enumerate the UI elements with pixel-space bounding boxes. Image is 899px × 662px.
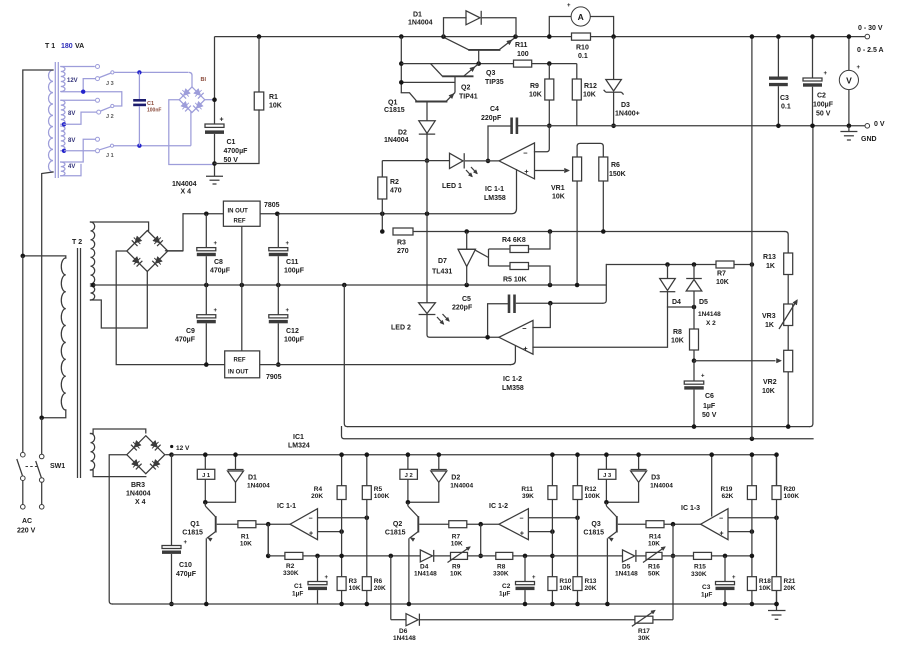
wire C4 left to output node bbox=[488, 126, 510, 161]
wire R17 up to cell3 output bbox=[653, 619, 673, 621]
wire output down to bus bbox=[672, 524, 674, 556]
svg-text:R11: R11 bbox=[515, 42, 528, 49]
wire bottom mid rail bbox=[347, 426, 810, 428]
wire C5 right line bbox=[516, 302, 604, 304]
svg-text:1µF: 1µF bbox=[292, 591, 303, 598]
transformer T1 secondary winding 8V section bbox=[61, 100, 65, 124]
wire +12V rail bbox=[172, 454, 774, 456]
terminal 0V bbox=[865, 124, 870, 129]
svg-text:J 3: J 3 bbox=[603, 473, 612, 479]
svg-text:IC 1-2: IC 1-2 bbox=[503, 376, 522, 383]
svg-text:100: 100 bbox=[517, 51, 529, 58]
diode D5 1N4148 bottom bbox=[623, 550, 635, 562]
resistor R13 20K bbox=[573, 577, 582, 591]
trimmer R9 10K bbox=[451, 552, 468, 559]
svg-text:1N4004: 1N4004 bbox=[247, 483, 270, 490]
resistor R1 10K bbox=[238, 521, 256, 528]
svg-text:C6: C6 bbox=[705, 393, 714, 400]
transformer T1 primary winding bbox=[49, 70, 54, 172]
svg-text:50 V: 50 V bbox=[816, 111, 831, 118]
svg-text:D3: D3 bbox=[651, 475, 660, 482]
svg-text:A: A bbox=[578, 12, 584, 22]
resistor R21 20K bbox=[772, 577, 781, 591]
diode D4 1N4148 bottom bbox=[420, 550, 432, 562]
svg-text:+: + bbox=[286, 308, 290, 314]
svg-text:R10: R10 bbox=[576, 45, 589, 52]
wire R7 to output node bbox=[467, 523, 499, 525]
node mid rail right column bbox=[342, 283, 347, 288]
node VR2 bottom rail bbox=[786, 424, 791, 429]
diode D2 1N4004 bbox=[438, 455, 440, 470]
wire T1 primary top to left bus bbox=[23, 70, 53, 256]
switch J2 lower contact bbox=[97, 110, 101, 114]
svg-text:LED 2: LED 2 bbox=[391, 325, 411, 332]
svg-text:R16: R16 bbox=[648, 564, 660, 571]
resistor R8 330K bottom bbox=[496, 552, 513, 559]
wire IC1-2 inverting input bbox=[533, 303, 550, 327]
svg-text:R2: R2 bbox=[390, 179, 399, 186]
node bus C1 bbox=[315, 554, 320, 559]
svg-text:0 V: 0 V bbox=[874, 121, 885, 128]
node rail ammeter left bbox=[547, 34, 552, 39]
svg-text:R20: R20 bbox=[784, 486, 796, 493]
svg-text:−: − bbox=[308, 516, 312, 523]
node C10 bottom bbox=[169, 602, 174, 607]
diode D6 1N4148 bbox=[391, 619, 406, 621]
wire column B bbox=[776, 500, 778, 577]
svg-text:270: 270 bbox=[397, 248, 409, 255]
svg-text:4V: 4V bbox=[68, 164, 75, 170]
switch J3 common joint bbox=[111, 71, 114, 74]
wire column A bottom bbox=[751, 591, 753, 605]
svg-text:R1: R1 bbox=[269, 94, 278, 101]
node bus colA1 bbox=[339, 554, 344, 559]
node bus C2 bbox=[523, 554, 528, 559]
wire winding top to BR3 bbox=[91, 429, 146, 434]
capacitor C3 0.1 bbox=[777, 37, 779, 77]
diode D1 1N4004 bbox=[235, 455, 237, 470]
wire VR2 bottom bbox=[787, 372, 789, 427]
wire mains left bus 2 bbox=[41, 418, 43, 454]
connector J2 bbox=[407, 455, 409, 470]
svg-text:D7: D7 bbox=[438, 258, 447, 265]
wire 7905 out rail bbox=[260, 364, 511, 366]
node X top blue bus bbox=[137, 70, 141, 74]
wire R9 column upper bbox=[548, 64, 550, 79]
svg-text:−: − bbox=[522, 324, 527, 333]
svg-text:R19: R19 bbox=[720, 486, 732, 493]
wire column B bottom bbox=[776, 591, 778, 605]
diode D2 1N4004 bbox=[419, 121, 435, 134]
node mid rail REF bbox=[240, 283, 245, 288]
svg-text:C1815: C1815 bbox=[182, 530, 203, 537]
ground symbol main bbox=[206, 175, 223, 177]
wire 0V to bottom mid rail right side bbox=[810, 126, 813, 427]
node Q1 base line bbox=[399, 61, 404, 66]
resistor R6 20K bbox=[362, 577, 371, 591]
svg-text:1N4004: 1N4004 bbox=[450, 483, 473, 490]
svg-text:+: + bbox=[214, 241, 218, 247]
wire diode clamp line bbox=[606, 264, 716, 266]
svg-text:+: + bbox=[567, 3, 571, 9]
resistor R15 330K bbox=[694, 552, 712, 559]
svg-text:1N4004: 1N4004 bbox=[408, 20, 433, 27]
svg-text:62K: 62K bbox=[721, 493, 733, 500]
wire winding bottom to BR3 bbox=[91, 470, 146, 477]
node C1 negative ground bbox=[212, 161, 217, 166]
svg-text:470: 470 bbox=[390, 188, 402, 195]
svg-text:+: + bbox=[701, 374, 705, 380]
svg-text:X 4: X 4 bbox=[135, 499, 146, 506]
node D2 LED1 bbox=[425, 158, 430, 163]
svg-text:+: + bbox=[824, 71, 828, 77]
wire bottom ground rail bbox=[112, 603, 776, 605]
wire Q2 base bbox=[419, 523, 449, 525]
svg-text:10K: 10K bbox=[451, 541, 463, 548]
resistor R12 100K bbox=[577, 455, 579, 486]
svg-text:220pF: 220pF bbox=[481, 115, 502, 122]
wire R2 top bbox=[381, 161, 383, 177]
svg-text:10K: 10K bbox=[762, 388, 775, 395]
wire 7805 REF down bbox=[241, 226, 243, 285]
transistor Q2 C1815 bottom bbox=[417, 516, 419, 532]
svg-text:10K: 10K bbox=[559, 585, 571, 592]
svg-text:Q2: Q2 bbox=[461, 85, 470, 92]
svg-text:1N4148: 1N4148 bbox=[414, 571, 437, 578]
svg-text:D6: D6 bbox=[399, 628, 408, 635]
resistor R4 6K8 bbox=[510, 246, 529, 253]
wire rail end corner to R20 bbox=[774, 455, 777, 486]
wire column B bottom bbox=[366, 591, 368, 605]
wire J1 top contact to 4V section top bbox=[61, 139, 95, 162]
node bridge output bbox=[212, 97, 217, 102]
wire Q1 collector vertical bbox=[400, 37, 402, 93]
wire BR2 left vertex to 7905 line bbox=[116, 251, 225, 365]
wire BR3 left vertex to ground rail bbox=[109, 455, 126, 604]
svg-text:100K: 100K bbox=[784, 493, 800, 500]
capacitor C5 220pF bbox=[508, 295, 511, 314]
node tap D on winding bbox=[62, 122, 66, 126]
capacitor C3 1uF bottom bbox=[724, 556, 726, 582]
wire J3 lower contact to tap B bbox=[83, 79, 95, 90]
node rail Q3 left bbox=[441, 34, 446, 39]
svg-text:10K: 10K bbox=[450, 571, 462, 578]
wire reference rail bbox=[413, 231, 785, 233]
wire bridge BR2 plus to 7805 bbox=[166, 214, 184, 251]
resistor R9 bbox=[545, 79, 554, 100]
svg-text:IC 1-2: IC 1-2 bbox=[489, 503, 508, 510]
connector J1 bbox=[204, 455, 206, 470]
wire R1 top bbox=[258, 37, 260, 92]
svg-text:+: + bbox=[732, 575, 736, 581]
svg-text:470µF: 470µF bbox=[175, 337, 196, 344]
svg-text:R2: R2 bbox=[286, 563, 295, 570]
wire Q1 base bbox=[217, 523, 238, 525]
svg-text:R1: R1 bbox=[241, 534, 250, 541]
terminal AC 1 bbox=[21, 505, 26, 510]
wire bus colA2 to D5 bbox=[552, 555, 622, 557]
wire R1 to output node bbox=[256, 523, 290, 525]
svg-text:+: + bbox=[220, 117, 224, 124]
wire D5 to R8 bbox=[693, 307, 695, 329]
wire IC1-1 noninverting input bbox=[318, 531, 342, 533]
svg-text:R21: R21 bbox=[784, 578, 796, 585]
svg-text:REF: REF bbox=[234, 219, 246, 225]
wire output to LED1 bbox=[465, 160, 499, 162]
svg-text:R6: R6 bbox=[611, 162, 620, 169]
switch SW1 pole1 blade bbox=[17, 459, 23, 476]
label +12V bbox=[170, 445, 173, 448]
wire T1 primary bottom bbox=[42, 172, 53, 418]
transformer T1 core bbox=[54, 62, 56, 178]
switch J3 top contact bbox=[96, 65, 100, 69]
capacitor C12 100uF bbox=[277, 285, 279, 315]
node C11 top bbox=[275, 212, 280, 217]
wire bus R8 to C2 bbox=[513, 555, 553, 557]
svg-text:20K: 20K bbox=[585, 585, 597, 592]
wire SW1 pole2 to terminal bbox=[41, 482, 43, 504]
svg-text:Q3: Q3 bbox=[591, 521, 600, 528]
wire mid rail bbox=[93, 284, 606, 286]
capacitor C1 1uF bottom bbox=[317, 556, 319, 582]
switch J3 blade bbox=[100, 73, 112, 78]
transformer T1 secondary winding 4V section bbox=[61, 162, 65, 176]
node opamp2 output bbox=[485, 335, 490, 340]
svg-text:100nF: 100nF bbox=[147, 108, 161, 114]
svg-text:R5 10K: R5 10K bbox=[503, 277, 527, 284]
node rail C3 bbox=[776, 34, 781, 39]
svg-text:R7: R7 bbox=[717, 271, 726, 278]
wire R5 right down bbox=[529, 266, 551, 285]
wire bus R9 to R8 bbox=[468, 555, 496, 557]
svg-text:IN OUT: IN OUT bbox=[228, 209, 249, 215]
resistor R3 270 bbox=[393, 228, 413, 235]
svg-text:R18: R18 bbox=[759, 578, 771, 585]
wire secondary top tap to J3 contact bbox=[61, 66, 95, 68]
svg-text:1N4004: 1N4004 bbox=[126, 491, 151, 498]
diode D5 1N4148 bbox=[693, 265, 695, 279]
svg-text:1µF: 1µF bbox=[701, 592, 712, 599]
resistor R3 10K bbox=[337, 577, 346, 591]
node Q3 base bbox=[476, 61, 481, 66]
svg-text:10K: 10K bbox=[349, 585, 361, 592]
svg-text:T 2: T 2 bbox=[72, 239, 82, 246]
node rail Q3 right bbox=[513, 34, 518, 39]
wire IC1-2 inverting input bbox=[528, 517, 577, 519]
resistor R7 10K bbox=[716, 261, 734, 268]
diode D4 1N4148 bbox=[667, 265, 669, 279]
wire VR1 bottom to mid rail bbox=[576, 181, 578, 285]
svg-text:R13: R13 bbox=[763, 254, 776, 261]
resistor R2 470 bbox=[378, 177, 387, 199]
wire R7 right bbox=[734, 264, 752, 266]
node R9 top bbox=[547, 61, 552, 66]
wire R12 bottom bbox=[576, 100, 578, 126]
wire R1 bottom bbox=[215, 110, 260, 164]
node C9 bottom bbox=[204, 362, 209, 367]
wire main raw supply vertical bbox=[214, 37, 216, 124]
node bus colA2 bbox=[550, 554, 555, 559]
capacitor C2 1uF bottom bbox=[524, 556, 526, 582]
svg-text:R4 6K8: R4 6K8 bbox=[502, 237, 526, 244]
resistor R5 100K bbox=[366, 455, 368, 486]
node tap E on winding bbox=[62, 149, 66, 153]
wire main column output bbox=[751, 37, 753, 439]
transistor Q1 C1815 bottom bbox=[215, 516, 217, 532]
wire bus D5 to R16 bbox=[636, 555, 646, 557]
resistor R11 39K bbox=[551, 455, 553, 486]
LED LED1 bbox=[427, 160, 450, 162]
wire bus R15 to main column bbox=[712, 555, 752, 557]
wire bridge BI right vertex to main positive node bbox=[205, 99, 215, 101]
svg-text:D2: D2 bbox=[398, 130, 407, 137]
switch SW1 link dashes bbox=[26, 466, 38, 468]
bridge rectifier BI bbox=[179, 87, 205, 113]
node D4 D5 bottom bbox=[692, 305, 697, 310]
svg-text:R4: R4 bbox=[314, 486, 323, 493]
svg-text:R12: R12 bbox=[585, 486, 597, 493]
node bus C3 rail bbox=[723, 602, 728, 607]
wire R14 to output node bbox=[664, 523, 701, 525]
node tap B bbox=[81, 90, 85, 94]
svg-text:C5: C5 bbox=[462, 296, 471, 303]
svg-text:R9: R9 bbox=[530, 83, 539, 90]
resistor R12 bbox=[572, 79, 581, 100]
svg-text:+: + bbox=[719, 531, 723, 538]
node R2 bottom on 5V line bbox=[380, 212, 385, 217]
node mid rail D7 bbox=[464, 283, 469, 288]
wire y82 link bbox=[401, 81, 455, 83]
terminal 0-30V output bbox=[865, 34, 870, 39]
svg-text:+: + bbox=[214, 308, 218, 314]
svg-text:180: 180 bbox=[61, 43, 73, 50]
wire bus cell1 output to R2 bbox=[268, 524, 285, 556]
node mid rail C8C9 bbox=[204, 283, 209, 288]
svg-text:C1: C1 bbox=[147, 101, 154, 107]
resistor R1 bbox=[254, 92, 264, 110]
wire column A bbox=[551, 500, 553, 577]
wire column B bbox=[366, 500, 368, 577]
svg-text:R7: R7 bbox=[452, 534, 461, 541]
svg-text:D1: D1 bbox=[248, 475, 257, 482]
capacitor C10 470uF bbox=[162, 546, 181, 549]
svg-text:LM358: LM358 bbox=[502, 385, 524, 392]
svg-text:Q1: Q1 bbox=[190, 521, 199, 528]
wire 7805 input rail bbox=[183, 213, 223, 215]
node Y bottom blue bus bbox=[137, 144, 141, 148]
svg-text:−: − bbox=[519, 516, 523, 523]
svg-text:50 V: 50 V bbox=[702, 412, 717, 419]
op-amp IC1-2 bottom bbox=[499, 509, 529, 540]
wire J1 common to node Y bbox=[114, 145, 191, 147]
wire node X to C1 bbox=[138, 72, 140, 99]
svg-text:C3: C3 bbox=[780, 95, 789, 102]
svg-text:330K: 330K bbox=[493, 571, 509, 578]
svg-text:4700µF: 4700µF bbox=[224, 148, 249, 155]
op-amp IC1-1 bottom bbox=[290, 509, 318, 540]
ground symbol bottom right bbox=[776, 591, 778, 611]
svg-text:IN OUT: IN OUT bbox=[228, 370, 249, 376]
node D5 top bbox=[692, 262, 697, 267]
node rail V bbox=[847, 34, 852, 39]
svg-text:100K: 100K bbox=[374, 493, 390, 500]
wire column B bottom bbox=[577, 591, 579, 605]
node rail Q1 collector bbox=[399, 34, 404, 39]
wire R9 bottom bbox=[548, 100, 550, 126]
node D2 column crossing bbox=[425, 212, 430, 217]
diode D7 TL431 bbox=[466, 232, 468, 250]
resistor R7 10K bbox=[449, 521, 467, 528]
svg-text:470µF: 470µF bbox=[210, 268, 231, 275]
wire Q1 collector corner bbox=[401, 93, 417, 102]
capacitor C1 100nF plates bbox=[133, 99, 146, 102]
svg-text:R6: R6 bbox=[374, 578, 383, 585]
svg-text:0.1: 0.1 bbox=[578, 53, 588, 60]
svg-text:VA: VA bbox=[75, 43, 84, 50]
wire Q1 base down to D2 bbox=[426, 102, 428, 121]
svg-text:C2: C2 bbox=[502, 583, 511, 590]
wire J3 common to node X bbox=[115, 71, 189, 73]
wire tap D to J2 lower contact bbox=[64, 112, 96, 124]
resistor R20 100K bbox=[776, 455, 778, 486]
svg-text:C2: C2 bbox=[817, 93, 826, 100]
potentiometer VR1 bbox=[577, 143, 603, 157]
node T2 primary bottom bbox=[39, 416, 44, 421]
svg-text:0 - 30 V: 0 - 30 V bbox=[858, 25, 883, 32]
svg-text:+: + bbox=[524, 167, 529, 176]
svg-text:+: + bbox=[286, 241, 290, 247]
node C12 bottom bbox=[276, 362, 281, 367]
svg-text:X 4: X 4 bbox=[181, 189, 192, 196]
svg-text:0.1: 0.1 bbox=[781, 104, 791, 111]
svg-text:IC 1-1: IC 1-1 bbox=[485, 186, 504, 193]
svg-text:J 1: J 1 bbox=[202, 473, 211, 479]
resistor R18 10K bbox=[747, 577, 756, 591]
svg-text:TL431: TL431 bbox=[432, 269, 452, 276]
resistor R2 330K bottom bbox=[285, 552, 303, 559]
wire bus R16 to R15 bbox=[662, 555, 694, 557]
node rail C2 bbox=[810, 34, 815, 39]
wire column A bottom bbox=[551, 591, 553, 605]
wire opamp1 vminus pin bbox=[260, 170, 516, 214]
node bus C2 rail bbox=[523, 602, 528, 607]
svg-text:R5: R5 bbox=[374, 486, 383, 493]
svg-text:C12: C12 bbox=[286, 328, 299, 335]
op-amp IC1-1 LM358 bbox=[499, 143, 535, 179]
wire ammeter branch bbox=[549, 17, 571, 37]
svg-text:330K: 330K bbox=[283, 570, 299, 577]
svg-text:T 1: T 1 bbox=[45, 43, 55, 50]
svg-text:R3: R3 bbox=[397, 240, 406, 247]
wire Q1 emitter to Q2 base bbox=[454, 76, 456, 92]
node opamp1 output bbox=[486, 159, 491, 164]
svg-text:1K: 1K bbox=[765, 322, 774, 329]
svg-text:C1815: C1815 bbox=[384, 107, 405, 114]
switch J1 top contact bbox=[96, 137, 100, 141]
wire bus R2 to C1 node bbox=[303, 555, 420, 557]
svg-text:7805: 7805 bbox=[264, 202, 280, 209]
svg-text:10K: 10K bbox=[716, 279, 729, 286]
svg-text:10K: 10K bbox=[583, 92, 596, 99]
svg-text:0 - 2.5 A: 0 - 2.5 A bbox=[857, 47, 884, 54]
svg-text:J 3: J 3 bbox=[106, 81, 114, 87]
svg-text:Q3: Q3 bbox=[486, 70, 495, 77]
switch SW1 pole1 lower contact bbox=[21, 476, 26, 481]
svg-text:7905: 7905 bbox=[266, 374, 282, 381]
svg-text:R8: R8 bbox=[673, 329, 682, 336]
switch SW1 pole2 lower contact bbox=[39, 478, 44, 483]
wire Q2 emitter to ground rail bbox=[408, 538, 410, 604]
